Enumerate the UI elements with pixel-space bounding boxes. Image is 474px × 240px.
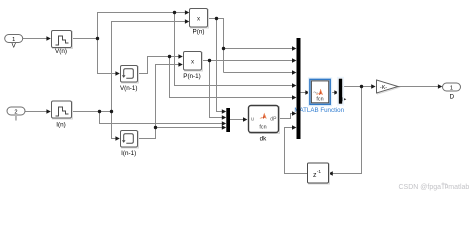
wire node J4 up to P(n) input 2 [112,19,190,111]
junction J10 [222,47,225,50]
svg-text:2: 2 [14,109,17,115]
svg-text:dk: dk [260,136,268,143]
svg-text:fcn: fcn [259,125,266,131]
wire mux input 3 from P(n) [224,70,297,74]
signal bar after MATLAB Function [338,78,344,105]
svg-text:dP: dP [270,116,277,122]
junction J1 [96,37,99,40]
junction J8 [154,126,157,129]
wire V(n-1) output up to P(n-1) input 1 [138,54,183,73]
watermark CSDN [399,182,470,191]
junction J2 [173,11,176,14]
block z-1 unit delay [308,163,330,184]
wire node J9 down to z-1 input [328,87,361,176]
block I(n) zero-order hold [52,101,73,129]
svg-text:I(n-1): I(n-1) [121,150,136,157]
svg-text:I: I [15,116,17,123]
svg-text:MATLAB Function: MATLAB Function [294,107,344,114]
block P(n-1) product [183,52,202,81]
wire MATLAB Function output to bar [330,90,339,94]
stub output arrow on bar [342,97,346,101]
block V(n) zero-order hold [52,31,73,56]
wire bar output to gain input [342,84,375,88]
block I(n-1) delay [121,131,139,158]
junction J5 [215,17,218,20]
svg-text:P(n-1): P(n-1) [183,73,201,80]
block V(n-1) delay [120,66,139,93]
wire P(n) output to corner then down [208,19,224,73]
outport 1 D [443,83,461,101]
wire big mux output to MATLAB Function input [301,90,310,94]
wire small mux output to dk input [230,117,247,121]
small mux [226,108,230,132]
junction J9 [360,85,363,88]
MATLAB Function block selected [294,78,344,114]
svg-text:P(n): P(n) [193,29,205,36]
wire mux input 1 from P(n) [224,46,297,50]
svg-text:V(n-1): V(n-1) [120,85,138,92]
svg-text:-K-: -K- [380,85,387,91]
svg-text:CSDN @fpga: CSDN @fpga [399,184,442,191]
block P(n) product [190,9,209,36]
wire node J1 down to V(n-1) input [98,39,120,76]
wire node J6 down to small mux input 2 [210,61,227,120]
wire inport I to block I(n) [25,109,51,113]
wire node J1 up and right to P(n) input 1 [98,10,190,38]
svg-text:-1: -1 [317,169,322,175]
svg-text:matlab: matlab [448,184,469,191]
inport 1 V [5,35,23,50]
svg-text:I(n): I(n) [56,122,65,129]
wire node J5 down to small mux input 1 [217,19,227,114]
wire gain output to outport D [398,84,442,88]
svg-text:u: u [251,117,254,123]
wire node J8 right to small mux input 4 [156,125,227,129]
wire node J3 down to small mux input 3 [100,112,227,126]
junction J4 [110,110,113,113]
wire node J7 down to mux input 5 [170,57,297,100]
big mux [297,38,301,139]
inport 2 I [7,107,25,123]
junction J6 [208,59,211,62]
svg-text:1: 1 [450,85,453,91]
svg-text:D: D [450,94,455,101]
wire V(n) output to node J1 [71,38,98,40]
wire I(n) output to node J4 [72,111,112,113]
junction J3 [98,110,101,113]
wire I(n-1) output up to P(n-1) input 2 [138,62,183,138]
wire P(n-1) output to mux input 2 [201,58,296,62]
wire dk output dP to mux input 6 [279,111,297,118]
wire node J4 down to I(n-1) input [112,112,120,141]
wire node J2 down to mux input 4 [175,13,297,88]
wire z-1 output up to mux input 7 [285,125,308,173]
gain -K- [377,80,400,94]
svg-text:fcn: fcn [316,97,323,103]
junction J7 [168,55,171,58]
block dk MATLAB function [249,106,280,143]
svg-text:V(n): V(n) [55,48,67,55]
wire inport V to block V(n) [23,36,51,40]
